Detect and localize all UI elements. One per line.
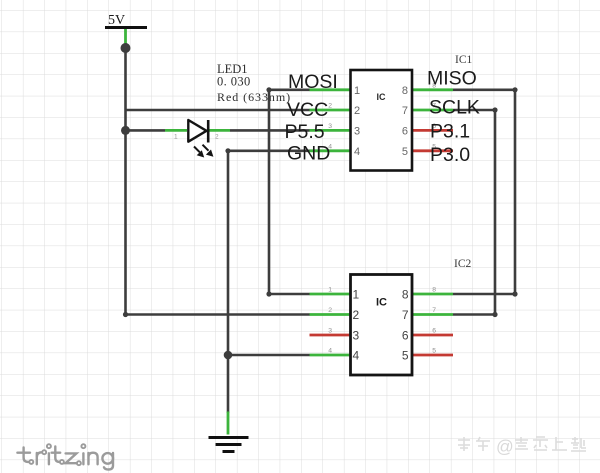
svg-text:@: @ <box>496 437 514 457</box>
IC U1 outer pin numbers <box>328 82 436 150</box>
junction LED branch <box>121 126 130 135</box>
svg-text:Red (633nm): Red (633nm) <box>217 90 291 104</box>
wire SCLK IC1 pin7 to IC2 pin7 <box>453 110 495 315</box>
LED LED1 <box>165 120 230 158</box>
junction bend SCLK top <box>492 107 497 112</box>
IC U2 pin numbers inside <box>353 287 409 362</box>
wire LED cathode to IC1 pin3 <box>230 129 310 132</box>
svg-text:MISO: MISO <box>427 68 477 90</box>
svg-text:8: 8 <box>402 85 408 97</box>
svg-text:1: 1 <box>354 85 360 97</box>
IC U2 body <box>351 275 413 376</box>
IC U1 pins <box>310 90 454 151</box>
svg-text:P5.5: P5.5 <box>285 121 325 143</box>
junction bend IC2 pin2 <box>123 312 128 317</box>
svg-text:4: 4 <box>354 146 360 158</box>
ground symbol <box>209 412 249 452</box>
wire GND from IC1 pin4 <box>228 151 310 413</box>
svg-text:2: 2 <box>353 308 360 322</box>
power symbol 5V <box>105 13 147 48</box>
IC U1 body <box>351 70 413 171</box>
junction bend MOSI top <box>266 87 271 92</box>
junction bend GND corner <box>225 148 230 153</box>
svg-text:0. 030: 0. 030 <box>217 75 251 89</box>
junction bend MISO top <box>512 87 517 92</box>
svg-text:1: 1 <box>328 287 332 294</box>
svg-text:2: 2 <box>215 134 219 141</box>
svg-text:P3.1: P3.1 <box>430 121 470 143</box>
wire VCC to IC1 pin2 <box>126 109 310 112</box>
svg-text:6: 6 <box>402 125 408 137</box>
junction 5V pin <box>121 43 131 53</box>
wire MISO IC1 pin8 to IC2 pin8 <box>453 90 515 294</box>
IC U2 outer pin numbers <box>328 287 436 355</box>
wire 5V net vertical <box>126 48 310 315</box>
wire MOSI IC1 pin1 to IC2 pin1 <box>269 90 310 294</box>
svg-text:IC2: IC2 <box>454 258 472 270</box>
wire GND to IC2 pin4 <box>228 354 310 357</box>
svg-text:IC: IC <box>377 92 387 102</box>
svg-text:1: 1 <box>174 134 178 141</box>
svg-text:VCC: VCC <box>287 99 328 121</box>
wire LED anode from 5V rail <box>126 129 166 132</box>
svg-text:8: 8 <box>402 287 409 301</box>
svg-text:5: 5 <box>402 348 409 362</box>
svg-text:IC1: IC1 <box>455 54 473 66</box>
svg-text:7: 7 <box>402 308 409 322</box>
svg-text:2: 2 <box>328 307 332 314</box>
svg-text:8: 8 <box>432 287 436 294</box>
svg-text:IC: IC <box>376 297 387 309</box>
svg-text:5: 5 <box>432 348 436 355</box>
watermark zhihu <box>458 437 586 457</box>
svg-text:GND: GND <box>287 143 330 165</box>
svg-text:3: 3 <box>354 125 360 137</box>
svg-text:5V: 5V <box>108 13 125 28</box>
svg-text:3: 3 <box>328 328 332 335</box>
junction bend SCLK bottom <box>492 312 497 317</box>
junction bend MISO bottom <box>512 291 517 296</box>
svg-text:3: 3 <box>328 123 332 130</box>
svg-text:SCLK: SCLK <box>429 97 480 119</box>
svg-text:7: 7 <box>432 307 436 314</box>
svg-text:4: 4 <box>328 348 332 355</box>
svg-text:2: 2 <box>354 105 360 117</box>
svg-text:4: 4 <box>353 348 360 362</box>
junction bend MOSI bottom <box>266 291 271 296</box>
svg-text:6: 6 <box>402 328 409 342</box>
svg-text:3: 3 <box>353 328 360 342</box>
svg-text:MOSI: MOSI <box>288 71 338 93</box>
svg-text:5: 5 <box>402 146 408 158</box>
fritzing logo <box>17 444 113 469</box>
junction GND to IC2 pin4 <box>224 351 233 360</box>
IC U2 pins <box>310 294 454 355</box>
svg-text:1: 1 <box>353 287 360 301</box>
label LED1 value <box>217 62 291 104</box>
svg-text:7: 7 <box>402 105 408 117</box>
IC U1 pin numbers inside <box>354 85 408 158</box>
svg-text:P3.0: P3.0 <box>430 144 470 166</box>
svg-text:2: 2 <box>328 103 332 110</box>
svg-text:6: 6 <box>432 328 436 335</box>
